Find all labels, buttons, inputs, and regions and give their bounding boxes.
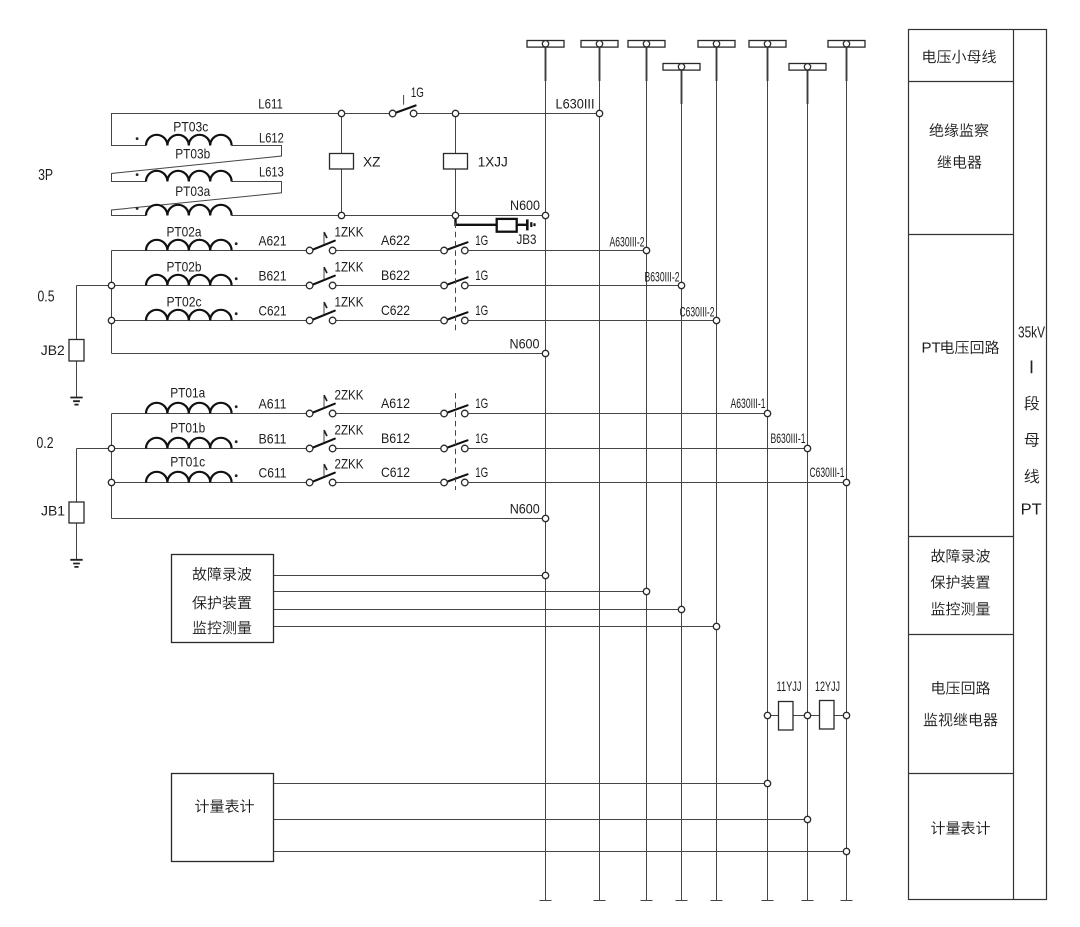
- svg-text:1ZKK: 1ZKK: [335, 259, 365, 275]
- svg-text:L630III: L630III: [556, 96, 595, 112]
- svg-text:C621: C621: [259, 302, 287, 318]
- svg-text:B622: B622: [381, 267, 410, 283]
- svg-text:3P: 3P: [38, 167, 53, 184]
- svg-text:XZ: XZ: [363, 154, 381, 170]
- svg-text:1G: 1G: [475, 302, 488, 318]
- svg-text:PT01b: PT01b: [170, 419, 205, 435]
- svg-text:A630III-2: A630III-2: [610, 233, 645, 249]
- svg-text:1G: 1G: [475, 232, 488, 248]
- svg-text:PT01c: PT01c: [170, 453, 205, 469]
- svg-text:B630III-2: B630III-2: [645, 268, 680, 284]
- svg-text:N600: N600: [510, 501, 540, 517]
- svg-text:PT02b: PT02b: [167, 259, 202, 275]
- svg-text:0.2: 0.2: [37, 435, 54, 452]
- svg-text:C622: C622: [381, 302, 410, 318]
- svg-text:A630III-1: A630III-1: [731, 395, 766, 411]
- svg-text:11YJJ: 11YJJ: [777, 678, 802, 694]
- svg-text:0.5: 0.5: [38, 288, 55, 305]
- svg-text:C611: C611: [259, 464, 287, 480]
- svg-text:1G: 1G: [475, 267, 488, 283]
- svg-text:JB2: JB2: [41, 342, 65, 358]
- svg-text:1ZKK: 1ZKK: [335, 294, 365, 310]
- svg-text:1ZKK: 1ZKK: [335, 224, 365, 240]
- svg-text:A621: A621: [259, 232, 287, 248]
- svg-text:35kV: 35kV: [1018, 325, 1045, 342]
- svg-text:1XJJ: 1XJJ: [478, 154, 508, 170]
- svg-text:12YJJ: 12YJJ: [815, 678, 840, 694]
- svg-text:L611: L611: [258, 96, 283, 112]
- svg-text:2ZKK: 2ZKK: [335, 422, 365, 438]
- svg-text:PT03b: PT03b: [175, 146, 210, 162]
- svg-text:1G: 1G: [475, 395, 488, 411]
- svg-text:A622: A622: [381, 232, 410, 248]
- svg-text:B621: B621: [259, 267, 287, 283]
- svg-text:JB3: JB3: [517, 231, 537, 247]
- svg-text:A611: A611: [259, 395, 287, 411]
- svg-text:PT03c: PT03c: [173, 119, 208, 135]
- svg-text:L612: L612: [259, 129, 284, 145]
- svg-text:1G: 1G: [475, 464, 488, 480]
- svg-text:PT02a: PT02a: [167, 224, 202, 240]
- svg-text:PT01a: PT01a: [170, 384, 205, 400]
- svg-text:PT03a: PT03a: [175, 183, 210, 199]
- svg-text:C612: C612: [381, 464, 410, 480]
- svg-text:1G: 1G: [475, 430, 488, 446]
- svg-text:C630III-1: C630III-1: [810, 464, 845, 480]
- svg-text:2ZKK: 2ZKK: [335, 387, 365, 403]
- svg-text:N600: N600: [510, 336, 540, 352]
- svg-text:PT: PT: [1021, 502, 1042, 519]
- svg-text:B630III-1: B630III-1: [771, 430, 806, 446]
- svg-text:L613: L613: [259, 164, 284, 180]
- svg-text:A612: A612: [381, 395, 410, 411]
- svg-text:B612: B612: [381, 430, 410, 446]
- svg-text:B611: B611: [259, 430, 287, 446]
- svg-text:C630III-2: C630III-2: [680, 303, 715, 319]
- svg-text:PT02c: PT02c: [167, 294, 202, 310]
- svg-text:N600: N600: [510, 197, 540, 213]
- svg-text:JB1: JB1: [41, 503, 65, 519]
- svg-text:PT: PT: [922, 339, 941, 356]
- svg-text:1G: 1G: [411, 84, 424, 100]
- svg-text:2ZKK: 2ZKK: [335, 456, 365, 472]
